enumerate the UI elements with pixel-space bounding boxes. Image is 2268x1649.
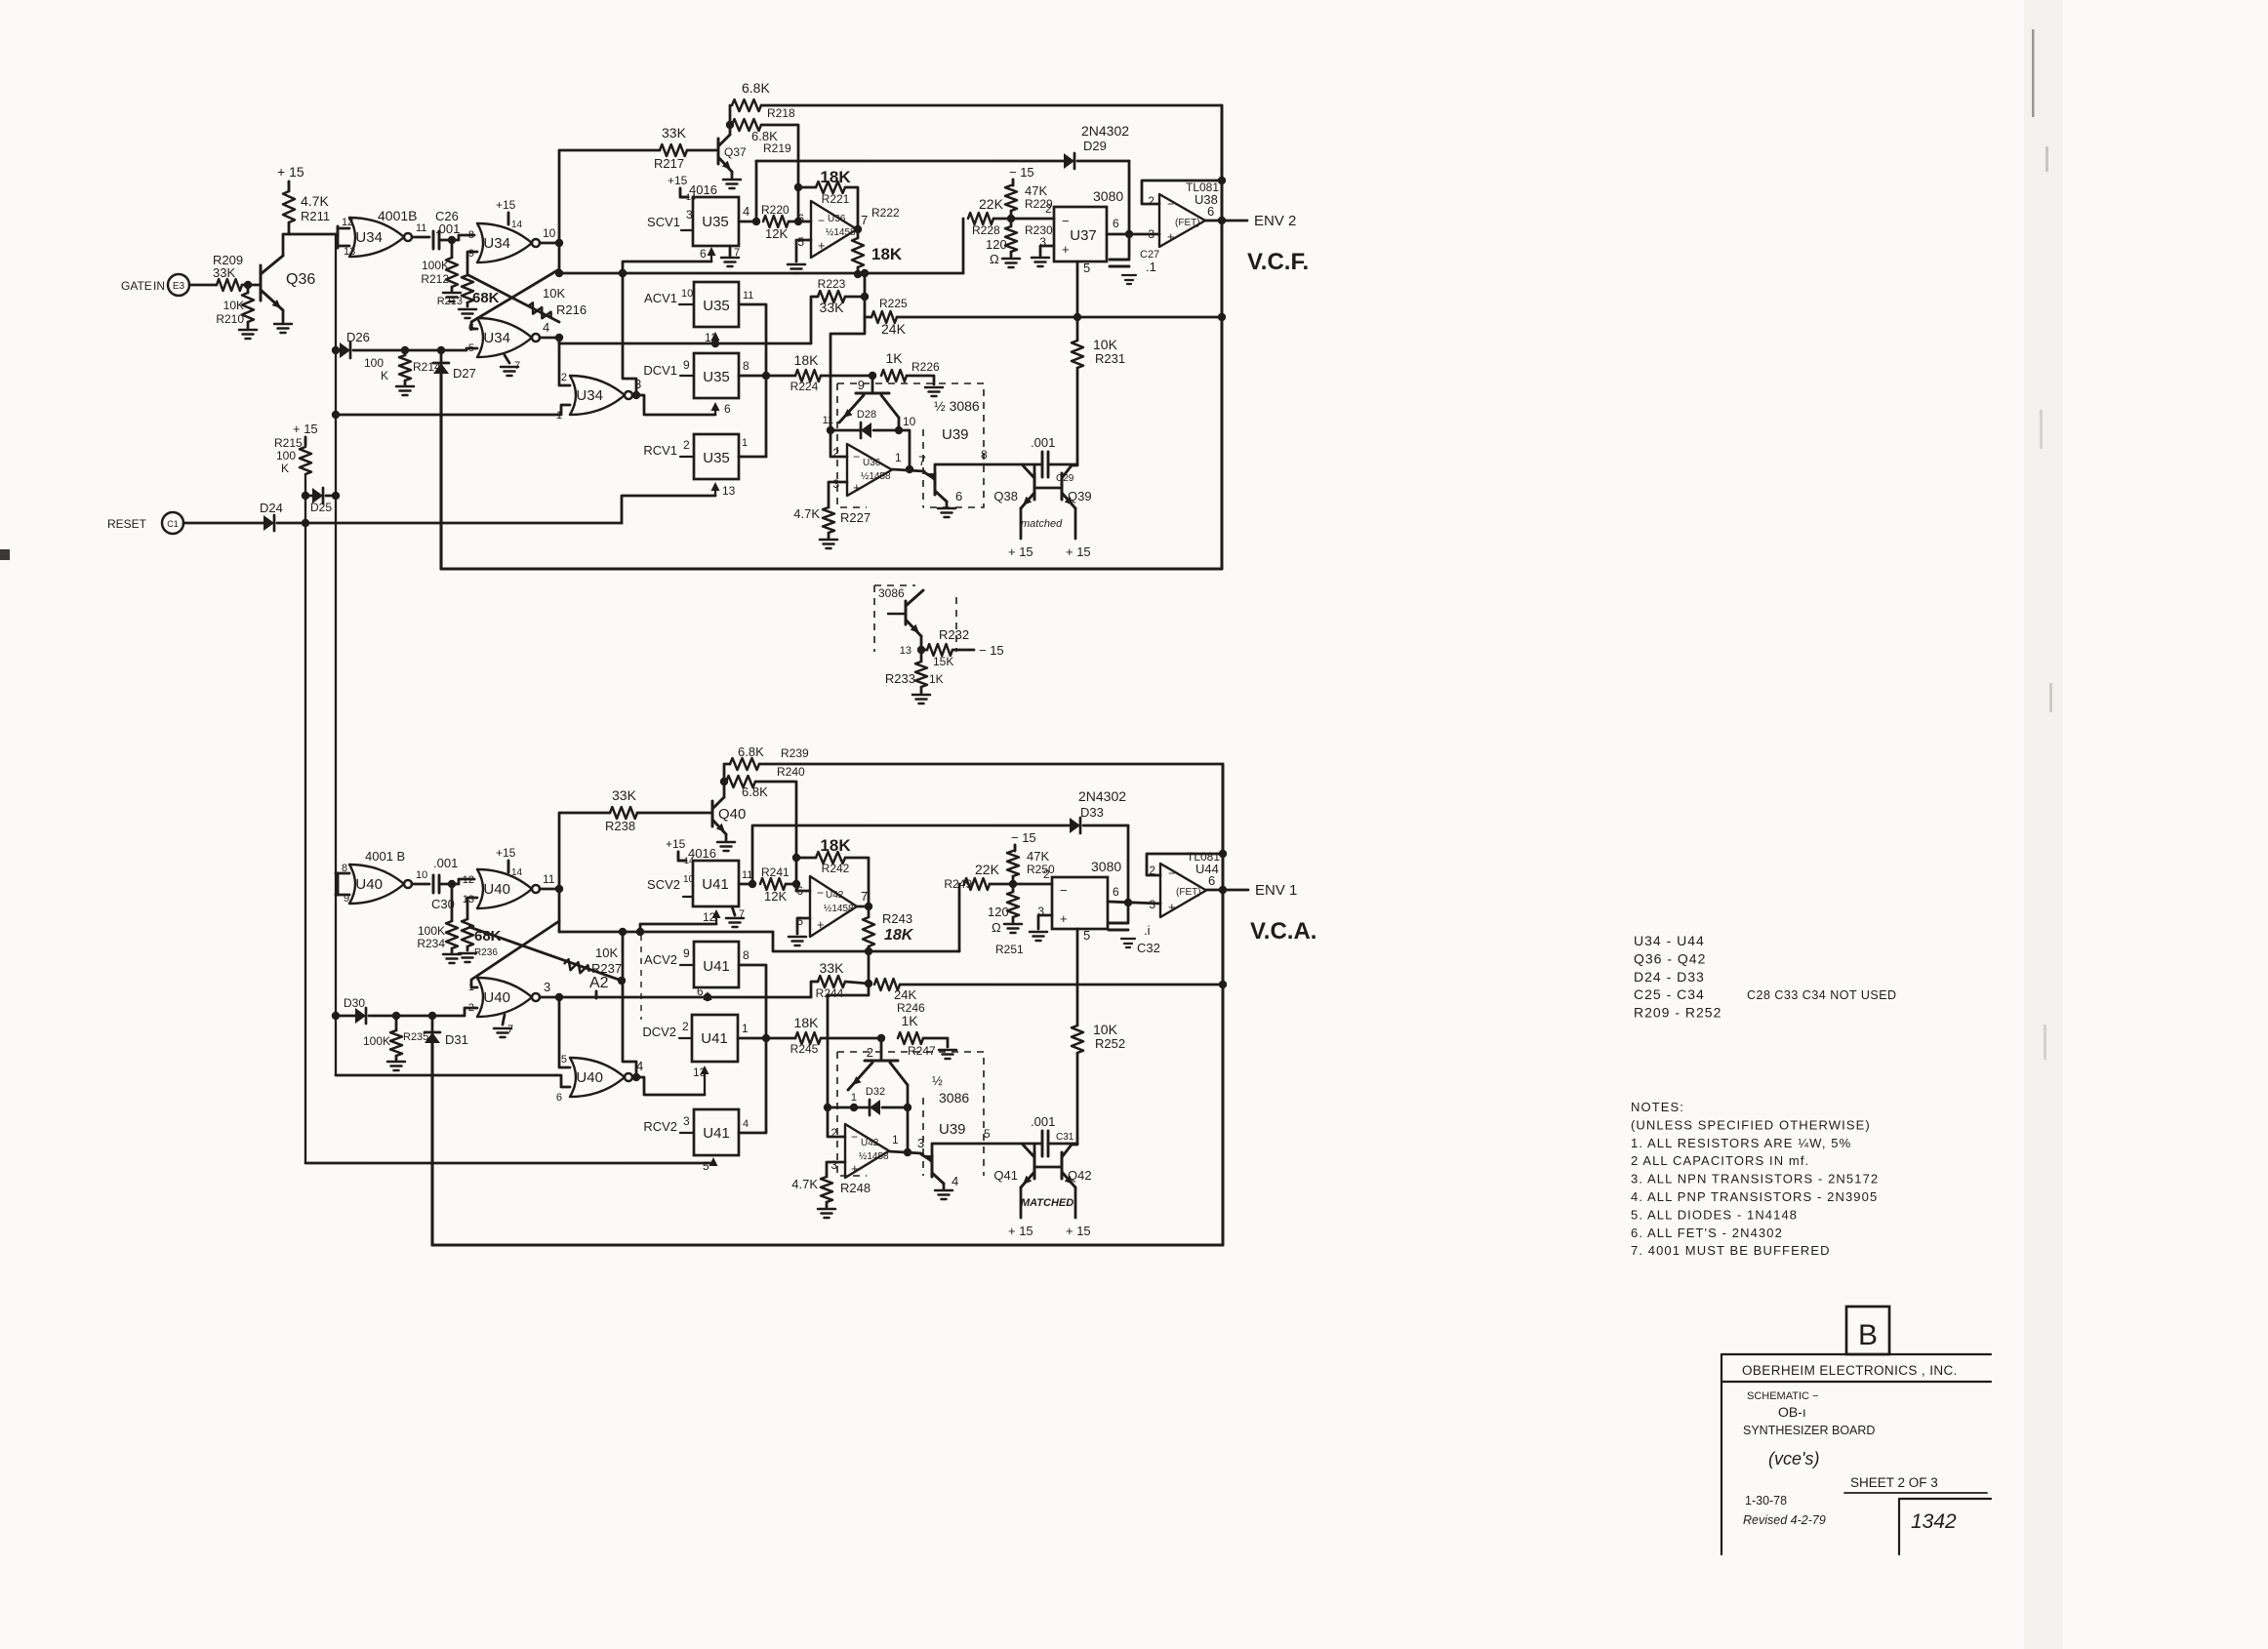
- power -15 R250: [1011, 830, 1036, 851]
- transistor U39 spare: [888, 590, 923, 650]
- svg-text:K: K: [381, 369, 388, 382]
- wire R252 to C31: [1076, 1139, 1079, 1144]
- svg-text:5: 5: [984, 1127, 991, 1141]
- svg-text:Ω: Ω: [992, 920, 1001, 935]
- svg-text:5: 5: [561, 1054, 567, 1066]
- svg-text:U37: U37: [1070, 227, 1097, 244]
- svg-text:R233: R233: [885, 671, 915, 686]
- label U39 half 3086: [934, 398, 980, 443]
- svg-text:4: 4: [952, 1174, 958, 1188]
- resistor R209 33K: [189, 253, 261, 291]
- svg-text:2: 2: [682, 1020, 689, 1033]
- svg-text:+: +: [817, 917, 825, 932]
- svg-text:13: 13: [722, 484, 736, 498]
- nor gate U40d: [556, 1054, 632, 1104]
- svg-text:R241: R241: [761, 865, 790, 879]
- label DCV2 pin2: [642, 1020, 692, 1039]
- svg-text:R252: R252: [1095, 1036, 1125, 1051]
- transistor Q39: [1062, 465, 1092, 508]
- wire U41a pin11 riser to D33 wire: [751, 825, 754, 884]
- svg-text:9: 9: [683, 358, 690, 372]
- svg-text:ACV2: ACV2: [644, 952, 677, 967]
- wire 24K to right border bottom: [900, 981, 1227, 988]
- svg-text:4: 4: [743, 204, 749, 219]
- svg-text:3: 3: [830, 1158, 837, 1172]
- svg-text:Q38: Q38: [993, 489, 1018, 503]
- wire ACV1 pin11 to output rail: [739, 290, 766, 457]
- svg-text:2N4302: 2N4302: [1078, 788, 1126, 804]
- diode D28: [823, 409, 916, 438]
- svg-text:R215: R215: [274, 436, 303, 450]
- ground R230: [1002, 252, 1020, 267]
- svg-text:2: 2: [1043, 867, 1050, 881]
- wire U40b output node: [540, 872, 563, 893]
- op-amp U36a 1458: [797, 201, 868, 258]
- ic U37 3080: [1054, 188, 1123, 261]
- transistor U39c (1/2 3086 bottom): [848, 1038, 908, 1107]
- title sheet: [1844, 1475, 1987, 1493]
- svg-text:R225: R225: [879, 297, 908, 310]
- wire U40c out down to U40d pin5: [559, 997, 570, 1067]
- label ENV2: [1254, 213, 1296, 229]
- switch U41 DCV2: [692, 1015, 738, 1062]
- wire Q38 emitter +15: [1008, 508, 1033, 559]
- svg-text:SCHEMATIC −: SCHEMATIC −: [1747, 1390, 1818, 1402]
- diode D31: [425, 1012, 468, 1245]
- title date: [1745, 1494, 1787, 1508]
- svg-text:11: 11: [823, 415, 833, 426]
- svg-text:U39: U39: [939, 1121, 966, 1138]
- svg-text:R243: R243: [882, 911, 912, 926]
- svg-text:D26: D26: [346, 330, 370, 344]
- svg-text:Q36 - Q42: Q36 - Q42: [1634, 950, 1706, 966]
- svg-text:OB-ı: OB-ı: [1778, 1404, 1806, 1420]
- wire bus A2 jog: [773, 932, 959, 951]
- svg-text:R245: R245: [790, 1042, 819, 1056]
- wire R240 to riser x816: [755, 782, 800, 891]
- transistor Q42: [1062, 1145, 1092, 1187]
- svg-text:+ 15: + 15: [277, 164, 304, 180]
- dashed box U39 bottom: [837, 1052, 984, 1176]
- svg-text:½1458: ½1458: [826, 227, 856, 238]
- switch U35 RCV1: [694, 434, 739, 479]
- resistor R216 10K diagonal: [468, 275, 587, 322]
- svg-text:3: 3: [683, 1114, 690, 1128]
- svg-text:33K: 33K: [820, 300, 845, 315]
- title schematic: [1747, 1390, 1818, 1402]
- resistor R241 12K: [760, 865, 796, 904]
- svg-text:18K: 18K: [884, 927, 914, 944]
- svg-text:10: 10: [416, 869, 427, 881]
- transistor U39d middle bottom: [921, 1151, 958, 1188]
- resistor R252 10K: [1072, 1022, 1125, 1139]
- svg-text:U41: U41: [703, 1125, 730, 1142]
- svg-text:MATCHED: MATCHED: [1021, 1197, 1073, 1209]
- resistor R225 24K: [865, 297, 908, 337]
- svg-text:3086: 3086: [878, 586, 905, 600]
- svg-text:11: 11: [416, 222, 426, 234]
- svg-text:+15: +15: [668, 174, 688, 187]
- svg-text:68K: 68K: [472, 290, 500, 306]
- svg-text:Q42: Q42: [1068, 1168, 1092, 1183]
- svg-text:10K: 10K: [223, 299, 244, 312]
- svg-text:100: 100: [276, 449, 296, 463]
- svg-text:−: −: [853, 450, 860, 463]
- svg-text:4: 4: [743, 1118, 749, 1130]
- svg-text:U34 - U44: U34 - U44: [1634, 933, 1705, 948]
- note device list: [1634, 933, 1897, 1021]
- svg-text:15K: 15K: [933, 655, 953, 668]
- wire Q40 collector node: [720, 778, 728, 797]
- svg-text:+15: +15: [666, 837, 686, 851]
- wire Q38 Q39 bases joined: [1034, 487, 1062, 490]
- resistor R243 18K: [863, 906, 914, 955]
- ground Q40 emitter: [717, 834, 735, 851]
- svg-text:+ 15: + 15: [1066, 544, 1091, 559]
- svg-text:10: 10: [683, 874, 695, 885]
- svg-text:11: 11: [543, 872, 555, 886]
- wire bus U40b out to R238: [559, 813, 610, 889]
- svg-text:100K: 100K: [422, 259, 449, 272]
- ground U37 pin3: [1032, 235, 1054, 266]
- svg-text:10K: 10K: [595, 945, 618, 960]
- wire U40d pin6 from left rail: [336, 1075, 570, 1087]
- svg-text:SCV1: SCV1: [647, 215, 680, 229]
- svg-text:K: K: [281, 462, 289, 475]
- svg-text:.1: .1: [1146, 260, 1156, 274]
- svg-text:7: 7: [861, 213, 868, 227]
- resistor R234 100K: [417, 884, 458, 950]
- label 3086 spare: [878, 586, 905, 600]
- svg-text:R218: R218: [767, 106, 795, 120]
- svg-text:U39: U39: [942, 426, 969, 443]
- resistor R233 1K: [885, 650, 944, 687]
- svg-text:1: 1: [468, 982, 474, 993]
- wire W2b gate output: [559, 996, 811, 999]
- svg-text:½1458: ½1458: [859, 1151, 889, 1162]
- svg-text:24K: 24K: [881, 321, 907, 337]
- svg-text:U41: U41: [702, 876, 729, 893]
- power +15 label (R211 top): [277, 164, 304, 191]
- wire R228 node to U37 pin2: [1011, 202, 1054, 219]
- svg-text:U40: U40: [483, 881, 510, 898]
- transistor U39a (1/2 3086 top): [839, 376, 899, 430]
- svg-text:R223: R223: [818, 277, 846, 291]
- dashed box U39: [837, 383, 984, 507]
- ground C27: [1122, 275, 1136, 284]
- svg-text:V.C.F.: V.C.F.: [1247, 249, 1309, 275]
- svg-text:U42: U42: [826, 890, 844, 901]
- resistor R237 10K diagonal: [469, 927, 626, 985]
- svg-text:U44: U44: [1195, 862, 1219, 876]
- svg-text:9: 9: [858, 378, 865, 392]
- switch U35 DCV1: [694, 353, 739, 398]
- svg-text:½ 3086: ½ 3086: [934, 398, 980, 414]
- wire U36b output: [892, 451, 926, 473]
- svg-text:−: −: [1062, 214, 1070, 228]
- svg-text:14: 14: [511, 867, 523, 878]
- svg-text:12: 12: [342, 217, 353, 228]
- ground U35a pin7: [721, 246, 740, 266]
- svg-text:11: 11: [743, 290, 753, 302]
- svg-text:C31: C31: [1056, 1132, 1074, 1143]
- ground U43 pin3: [1030, 905, 1052, 941]
- diode D29 2N4302: [756, 123, 1129, 169]
- svg-text:R211: R211: [301, 209, 330, 223]
- svg-text:R250: R250: [1027, 863, 1055, 876]
- wire RCV2 pin5 arrow: [703, 1157, 718, 1173]
- wire U42a output node: [857, 903, 872, 910]
- wire U34b output node: [540, 226, 563, 247]
- resistor R244 33K: [811, 960, 869, 1000]
- svg-text:13: 13: [900, 645, 911, 657]
- ground R226: [925, 387, 943, 396]
- svg-text:13: 13: [344, 246, 355, 258]
- wire R244 node down to U39b base rail: [828, 984, 869, 1107]
- title company: [1742, 1363, 1958, 1378]
- capacitor C30 .001: [431, 856, 458, 911]
- svg-text:.001: .001: [1031, 435, 1055, 450]
- title block frame: [1721, 1354, 1991, 1554]
- svg-text:1: 1: [895, 451, 902, 464]
- ground R210: [239, 322, 257, 339]
- label ACV1 pin10: [644, 288, 694, 305]
- svg-text:R240: R240: [777, 765, 805, 779]
- ground U39d: [935, 1190, 952, 1199]
- svg-text:R209 - R252: R209 - R252: [1634, 1005, 1721, 1021]
- resistor R229 47K: [1005, 183, 1053, 211]
- svg-text:+ 15: + 15: [1066, 1224, 1091, 1238]
- nor gate U34a 4001B: [338, 208, 417, 258]
- svg-text:R213: R213: [437, 296, 463, 307]
- ground R214: [396, 381, 414, 395]
- svg-text:D28: D28: [857, 409, 876, 421]
- svg-text:2: 2: [561, 372, 567, 383]
- op-amp U36b 1458: [832, 444, 892, 496]
- svg-text:R232: R232: [939, 627, 969, 642]
- svg-text:8: 8: [981, 448, 988, 462]
- wire DCV1 pin8 to node: [739, 359, 795, 380]
- wire R231 to C29: [1076, 460, 1079, 464]
- wire U38 output ENV2: [1205, 217, 1247, 224]
- svg-text:R244: R244: [816, 986, 844, 1000]
- wire DCV2 pin1 to node: [738, 1022, 795, 1042]
- svg-text:2: 2: [683, 438, 690, 452]
- transistor Q36: [261, 256, 315, 311]
- wire RCV2 pin4 to output rail: [739, 1038, 766, 1133]
- op-amp U38 TL081: [1148, 181, 1219, 247]
- svg-text:U36: U36: [828, 214, 846, 224]
- wire U40b pin13 to 68K: [467, 898, 477, 919]
- wire Q41 Q42 bases joined: [1034, 1166, 1062, 1169]
- svg-text:ENV 1: ENV 1: [1255, 882, 1297, 899]
- wire R211 to Q36 collector and U34a inputs: [283, 222, 338, 256]
- wire bus A1: [559, 269, 963, 277]
- label U39 half 3086 bottom: [932, 1073, 969, 1138]
- ground R227: [820, 533, 837, 548]
- svg-text:4001B: 4001B: [378, 208, 417, 223]
- svg-text:2 ALL CAPACITORS IN mf.: 2 ALL CAPACITORS IN mf.: [1631, 1153, 1809, 1168]
- wire U35a pin4 to R220 node: [739, 204, 760, 225]
- wire DCV1 pin6 arrow: [711, 402, 732, 416]
- wire cross diagonal bottom: [471, 921, 559, 987]
- svg-text:1K: 1K: [929, 672, 944, 686]
- wire W2 gate3 output: [559, 338, 811, 343]
- wire U39b to Q38: [935, 448, 1023, 479]
- resistor R240 6.8K: [726, 765, 805, 799]
- svg-text:6.8K: 6.8K: [738, 744, 764, 759]
- op-amp U42a 1458: [796, 876, 868, 937]
- switch U35 ACV1: [694, 282, 739, 327]
- svg-text:U34: U34: [483, 330, 510, 346]
- diode D30: [332, 996, 477, 1024]
- wire U34d pin1 from left rail: [336, 405, 570, 415]
- svg-text:C32: C32: [1137, 941, 1160, 955]
- svg-text:R242: R242: [822, 862, 850, 875]
- node E3 GATE IN: [121, 274, 189, 296]
- svg-text:D25: D25: [310, 501, 332, 514]
- svg-text:U35: U35: [702, 214, 729, 230]
- svg-text:18K: 18K: [794, 1015, 820, 1030]
- nor gate U34d: [556, 372, 632, 422]
- ground R236: [459, 946, 476, 962]
- svg-text:R221: R221: [822, 192, 850, 206]
- label matched: [1021, 518, 1063, 530]
- svg-text:Ω: Ω: [990, 252, 999, 266]
- svg-text:−: −: [1168, 866, 1175, 880]
- ground R251: [1004, 917, 1022, 933]
- diode D25: [302, 488, 340, 514]
- wire top border right: [1221, 105, 1224, 569]
- transistor Q37: [718, 135, 747, 173]
- wire U41a pin11 to R241 node: [739, 869, 756, 888]
- svg-text:+15: +15: [496, 198, 516, 212]
- svg-text:RESET: RESET: [107, 517, 147, 531]
- svg-text:R251: R251: [995, 943, 1024, 956]
- svg-text:100: 100: [364, 356, 384, 370]
- resistor R245 18K: [790, 1015, 881, 1056]
- svg-text:R219: R219: [763, 141, 791, 155]
- svg-text:+: +: [818, 238, 826, 253]
- resistor R248 4.7K: [791, 1177, 871, 1202]
- svg-text:6: 6: [955, 489, 962, 503]
- wire left rail to RCV2 pin5: [305, 1162, 713, 1165]
- svg-text:R226: R226: [911, 360, 940, 374]
- svg-text:7: 7: [861, 889, 868, 904]
- svg-text:6. ALL FET'S - 2N4302: 6. ALL FET'S - 2N4302: [1631, 1226, 1783, 1240]
- svg-text:U36: U36: [863, 458, 881, 468]
- svg-text:33K: 33K: [213, 265, 235, 280]
- svg-text:U38: U38: [1195, 192, 1218, 207]
- transistor Q41: [993, 1145, 1034, 1187]
- wire R223 node down to U39 base rail: [830, 317, 865, 430]
- resistor R219 6.8K: [732, 119, 791, 155]
- svg-text:C1: C1: [167, 519, 179, 529]
- wire U42b pin3 to R248: [827, 1162, 845, 1177]
- ground R247: [939, 1050, 956, 1059]
- note general notes: [1631, 1100, 1879, 1258]
- wire R219 to riser x818: [761, 125, 802, 225]
- resistor R211 4.7K: [283, 191, 330, 223]
- transistor Q38: [993, 465, 1034, 508]
- node C26/R212/U34b pin8: [448, 235, 474, 244]
- wire ACV2 pin6 arrow: [697, 985, 712, 1001]
- wire D33 riser to pin6 node: [1127, 825, 1130, 903]
- svg-text:R224: R224: [790, 380, 819, 393]
- wire U42b pin2 to D32 node: [828, 1107, 845, 1137]
- svg-text:.001: .001: [433, 856, 458, 870]
- svg-text:1K: 1K: [901, 1013, 918, 1028]
- wire U35a pin4 riser to D29 wire: [755, 161, 758, 221]
- svg-text:− 15: − 15: [1009, 165, 1034, 180]
- svg-text:R234: R234: [417, 937, 445, 950]
- resistor R210 10K: [216, 281, 254, 326]
- wire bus A2 left: [559, 928, 773, 936]
- op-amp U42b 1458: [830, 1124, 889, 1178]
- capacitor C27 .1: [1110, 234, 1159, 274]
- svg-text:Q39: Q39: [1068, 489, 1092, 503]
- svg-text:5: 5: [797, 235, 804, 249]
- svg-text:R222: R222: [871, 206, 900, 220]
- svg-text:8: 8: [743, 359, 749, 373]
- svg-text:B: B: [1858, 1319, 1878, 1351]
- label SCV1 pin3: [647, 208, 693, 230]
- svg-text:+: +: [851, 1161, 859, 1176]
- diode D26: [332, 330, 477, 358]
- resistor R217 33K: [654, 125, 718, 171]
- svg-text:6: 6: [797, 212, 804, 225]
- wire D29 riser to pin6 node: [1128, 161, 1131, 234]
- ground U39b: [938, 508, 955, 517]
- svg-text:U34: U34: [576, 387, 603, 404]
- svg-text:Q36: Q36: [286, 271, 315, 288]
- title revised: [1743, 1513, 1826, 1527]
- resistor R246 24K: [874, 979, 925, 1015]
- svg-text:22K: 22K: [975, 862, 1000, 877]
- svg-text:− 15: − 15: [1011, 830, 1036, 845]
- svg-text:D32: D32: [866, 1086, 885, 1098]
- svg-text:−: −: [851, 1130, 858, 1144]
- wire U34d output: [632, 377, 715, 415]
- svg-text:V.C.A.: V.C.A.: [1250, 918, 1316, 945]
- svg-text:6: 6: [1113, 885, 1119, 899]
- svg-text:47K: 47K: [1025, 183, 1047, 198]
- svg-text:24K: 24K: [894, 987, 916, 1002]
- svg-text:.001: .001: [1031, 1114, 1055, 1129]
- svg-text:(vce's): (vce's): [1768, 1449, 1819, 1468]
- label RCV2 pin3: [643, 1114, 694, 1134]
- ground R212: [443, 287, 461, 302]
- svg-text:10K: 10K: [543, 286, 565, 301]
- wire Q39 emitter +15: [1066, 508, 1091, 559]
- resistor R239 6.8K: [724, 744, 809, 782]
- svg-text:SHEET 2 OF 3: SHEET 2 OF 3: [1850, 1475, 1938, 1490]
- svg-text:100K: 100K: [418, 924, 445, 938]
- ic U43 3080: [1052, 859, 1121, 929]
- title synthesizer board: [1743, 1424, 1875, 1437]
- resistor R230: [1005, 211, 1053, 252]
- resistor R236 68K: [462, 919, 502, 958]
- svg-text:Revised 4-2-79: Revised 4-2-79: [1743, 1513, 1826, 1527]
- svg-text:9: 9: [683, 946, 690, 960]
- wire U40c output node: [540, 980, 563, 1001]
- svg-text:−: −: [1060, 883, 1068, 898]
- svg-text:R238: R238: [605, 819, 635, 833]
- svg-text:12: 12: [463, 874, 474, 886]
- svg-text:10K: 10K: [1093, 1022, 1118, 1037]
- svg-text:10K: 10K: [1093, 337, 1118, 352]
- svg-text:D29: D29: [1083, 139, 1107, 153]
